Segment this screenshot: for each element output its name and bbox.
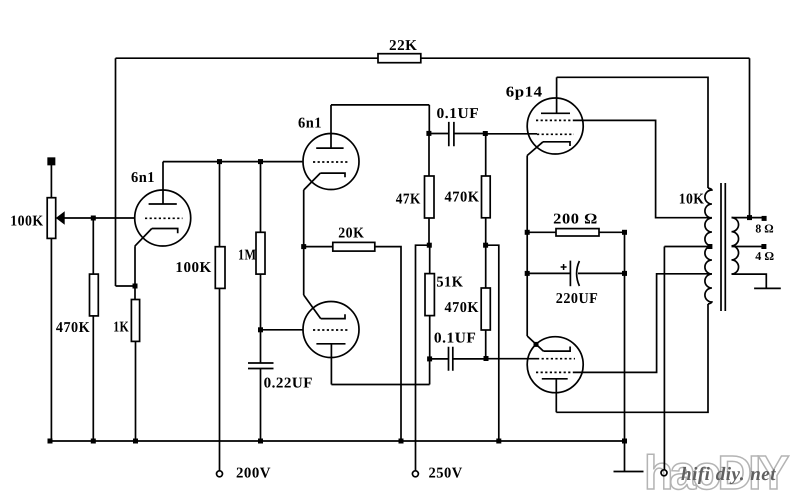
node junction dot 470K top upper (483, 131, 488, 136)
terminal square 4 ohm (761, 244, 766, 249)
6p14 upper plate lead (556, 77, 558, 113)
chassis ground bar (614, 471, 644, 473)
terminal circle 200V (217, 471, 223, 477)
input terminal square (48, 158, 54, 164)
rail dot 20K drop (399, 439, 404, 444)
wire 470K lower top lead (485, 245, 487, 288)
wire 220UF left lead (527, 272, 570, 274)
svg-text:47K: 47K (396, 191, 421, 207)
rail dot 1K (133, 439, 138, 444)
wire 6p14 lower screen lead (575, 274, 712, 373)
rail dot 470K (91, 439, 96, 444)
wire junction to ground drop (486, 245, 499, 441)
wire 200ohm right lead (599, 231, 625, 233)
tube2 cathode diagonal lead (304, 173, 321, 190)
node junction dot 51K bottom (427, 356, 432, 361)
6p14 lower cathode diagonal (527, 336, 543, 351)
wire 100K top lead (219, 162, 221, 247)
node junction dot 0.1UF lower right (484, 356, 489, 361)
resistor 1K body (131, 300, 139, 342)
resistor 100K body (215, 247, 225, 289)
tube3 plate bar (316, 343, 345, 345)
wire up to 51K bottom node (429, 359, 431, 385)
wire 1K bottom lead (135, 341, 137, 441)
svg-text:20K: 20K (338, 226, 364, 242)
node junction dot 220UF left (525, 271, 530, 276)
wire 470K upper bottom lead (485, 218, 487, 245)
wire secondary bottom (732, 274, 767, 288)
svg-text:1M: 1M (238, 248, 257, 264)
node junction dot 220UF right (622, 271, 627, 276)
6p14 lower cathode (543, 347, 570, 352)
capacitor 220UF curved plate (577, 261, 580, 286)
resistor 22K body (378, 54, 421, 63)
resistor 1M body (256, 232, 265, 274)
triode 6n1 first envelope (135, 190, 191, 246)
ground rail (50, 440, 625, 442)
tube1 plate bar (149, 203, 177, 205)
resistor 470K upper body (482, 176, 491, 218)
rail dot 0.22UF (258, 439, 263, 444)
wire 6p14 upper screen lead (574, 120, 712, 217)
node junction dot 20K left (301, 244, 306, 249)
6p14 lower control grid dotted (537, 358, 575, 360)
pentode 6p14 lower envelope (inverted) (527, 337, 583, 393)
capacitor 0.22UF plates (248, 363, 274, 369)
wire 1M bottom lead (260, 274, 262, 330)
wire 6p14 lower plate to transformer (556, 304, 708, 412)
wire 0.1UF lower right lead (453, 358, 486, 360)
capacitor 0.1UF upper plates (449, 122, 454, 146)
node junction dot 200ohm right (622, 230, 627, 235)
node junction dot 47K bottom (427, 243, 432, 248)
node junction dot 1K top (133, 284, 138, 289)
svg-text:220UF: 220UF (556, 291, 599, 307)
svg-text:51K: 51K (436, 274, 463, 290)
tube1 cathode diagonal lead (135, 229, 152, 247)
node junction dot on cathode diagonal (534, 342, 539, 347)
node junction dot 470K top (91, 216, 96, 221)
svg-text:hifi diy. net: hifi diy. net (681, 464, 776, 485)
wire 0.1UF lower left lead (430, 358, 449, 360)
svg-text:250V: 250V (429, 466, 463, 482)
node junction dot 1M top (258, 159, 263, 164)
tube2 plate bar (316, 147, 343, 149)
wire secondary 4 ohm tap (732, 246, 764, 248)
6p14 lower plate bar (542, 378, 568, 380)
wire pot bottom lead (50, 238, 52, 441)
tube2 grid dotted (313, 161, 349, 163)
capacitor 220UF straight plate (569, 261, 571, 287)
6p14 upper cathode (543, 142, 570, 146)
wire 47K bottom lead (428, 218, 430, 245)
svg-text:6n1: 6n1 (131, 170, 155, 186)
svg-text:6n1: 6n1 (298, 116, 322, 132)
svg-text:0.1UF: 0.1UF (434, 331, 477, 347)
wire tube1 plate to tube2 grid (163, 161, 302, 163)
wire tube3 plate run right (331, 384, 429, 386)
ground bar secondary (754, 287, 781, 289)
svg-text:8 Ω: 8 Ω (755, 222, 774, 236)
tube2 plate lead (330, 105, 332, 148)
wire plate run down to 0.1UF node (428, 105, 430, 134)
svg-text:470K: 470K (445, 189, 480, 205)
wire 51K top lead (429, 245, 431, 273)
wire tube2 cathode vertical (303, 190, 305, 295)
triode 6n1 second envelope (303, 134, 359, 190)
svg-text:22K: 22K (389, 38, 418, 54)
wire 470K lower bottom lead (485, 330, 487, 359)
tube2 cathode (320, 173, 345, 177)
wire 470K top lead (92, 218, 94, 274)
svg-text:0.1UF: 0.1UF (437, 106, 480, 122)
wire node to 250V drop (416, 245, 430, 471)
wire tube1 cathode vertical (134, 246, 136, 299)
resistor 470K body (90, 274, 99, 316)
potentiometer 100K body (47, 198, 56, 239)
wire 0.1UF upper right lead (454, 133, 485, 135)
wire 100K bottom lead to 200V (219, 288, 221, 470)
svg-text:470K: 470K (56, 320, 90, 336)
transformer secondary winding (732, 218, 739, 274)
wire 470K bottom lead (92, 316, 94, 441)
6p14 upper plate bar (541, 112, 570, 114)
6p14 upper cathode diagonal (527, 142, 543, 156)
node junction dot grid3 (258, 327, 263, 332)
svg-text:1K: 1K (113, 320, 129, 336)
capacitor 0.1UF lower plates (449, 347, 453, 371)
pentode 6p14 upper envelope (527, 98, 583, 154)
resistor 470K lower body (481, 288, 490, 330)
svg-text:6p14: 6p14 (506, 85, 543, 101)
primary center tap dot (707, 244, 712, 249)
rail dot end (622, 439, 627, 444)
node junction dot 470K junction (483, 243, 488, 248)
capacitor 220UF plus sign (561, 264, 567, 270)
wire to 6p14 upper grid (485, 133, 537, 135)
rail dot 470K junction drop (496, 439, 501, 444)
wire 6p14 upper plate to transformer (557, 77, 708, 188)
svg-text:4 Ω: 4 Ω (755, 249, 774, 263)
resistor 51K body (425, 274, 434, 316)
terminal circle 250V (412, 471, 418, 477)
tube1 grid dotted (145, 217, 183, 219)
node junction dot 100K top (217, 159, 222, 164)
wire center tap drop to B+ terminal (663, 247, 665, 470)
wire secondary top to 8 ohm (732, 217, 765, 219)
node junction dot 200ohm left (525, 230, 530, 235)
transformer core lines (721, 183, 725, 311)
wire rail drop to chassis (624, 441, 626, 472)
wire 20K left lead (304, 246, 333, 248)
node junction dot 0.1UF left upper (426, 131, 431, 136)
svg-text:0.22UF: 0.22UF (264, 375, 313, 391)
svg-text:200V: 200V (236, 465, 271, 481)
resistor 47K body (425, 176, 435, 218)
terminal square 8 ohm (762, 216, 767, 221)
wire 20K right lead (375, 247, 401, 441)
tube3 cathode (321, 314, 345, 318)
pot wiper arrow (57, 212, 65, 223)
triode 6n1 third envelope (inverted) (303, 302, 359, 358)
wire feedback left vertical (115, 58, 117, 286)
wire center tap run (664, 246, 710, 248)
tube3 plate lead down (330, 344, 332, 385)
wire feedback right vertical to 8ohm tap (749, 58, 751, 217)
wire 220UF right lead (578, 272, 625, 274)
wire pot wiper to tube1 grid (58, 217, 135, 219)
6p14 lower plate lead (555, 379, 557, 413)
wire 200ohm left lead (527, 231, 556, 233)
6p14 upper control grid dotted (537, 133, 574, 135)
svg-text:10K: 10K (679, 192, 705, 208)
tube1 plate lead (162, 162, 164, 204)
wire 0.22UF bottom lead (260, 369, 262, 442)
node junction dot feedback tap (747, 215, 752, 220)
wire 1M top lead (260, 162, 262, 233)
resistor 200ohm body (556, 229, 599, 236)
wire cathode network ground drop (624, 232, 626, 441)
svg-text:200 Ω: 200 Ω (553, 212, 598, 228)
terminal circle B+ (661, 470, 667, 476)
wire 47K top lead (428, 134, 430, 177)
wire feedback jumper to cathode node (116, 285, 136, 287)
wire pot top lead (50, 164, 52, 197)
6p14 lower screen dotted (536, 371, 575, 373)
wire diagonal to tube3 cathode (304, 295, 321, 319)
wire 1M node to tube3 grid (261, 329, 304, 331)
tube3 grid dotted (313, 329, 349, 331)
wire 0.22UF top lead (260, 330, 262, 363)
wire 470K upper top lead (485, 134, 487, 177)
svg-text:470K: 470K (445, 300, 480, 316)
wire feedback top horizontal (116, 57, 750, 59)
wire to 6p14 lower grid (486, 358, 537, 360)
resistor 20K body (333, 242, 375, 251)
svg-text:100K: 100K (175, 260, 211, 276)
wire 0.1UF upper left lead (429, 133, 449, 135)
wire tube2 plate top run (331, 104, 429, 106)
rail dot pot (48, 439, 53, 444)
6p14 upper screen dotted (536, 119, 574, 121)
tube1 cathode (152, 229, 178, 234)
wire cathode bus vertical (526, 156, 528, 337)
svg-text:100K: 100K (10, 214, 43, 230)
transformer primary winding (705, 188, 712, 304)
wire 51K bottom lead (429, 316, 431, 359)
